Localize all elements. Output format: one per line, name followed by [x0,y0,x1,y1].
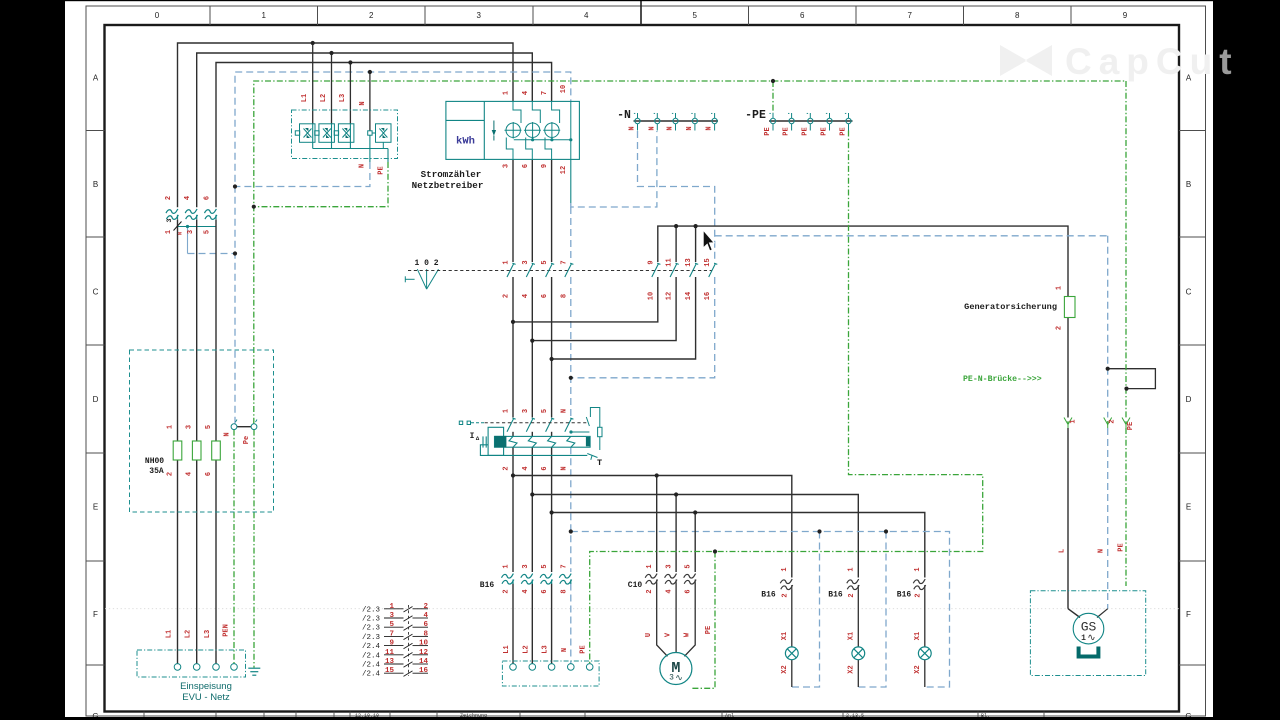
svg-text:9: 9 [647,260,655,264]
svg-text:3: 3 [522,564,530,568]
svg-text:1: 1 [389,603,394,611]
svg-text:5: 5 [692,11,697,20]
svg-text:N: N [224,432,232,436]
svg-text:8: 8 [1015,11,1020,20]
svg-text:4: 4 [184,196,192,200]
svg-text:10: 10 [560,85,568,93]
svg-text:7: 7 [560,564,568,568]
RCD trip coil [480,427,587,455]
svg-text:X1: X1 [781,632,789,640]
svg-text:Netzbetreiber: Netzbetreiber [412,180,484,191]
CapCut watermark [1000,41,1239,82]
svg-text:3: 3 [522,409,530,413]
kWh meter CT coil L3 [543,101,560,159]
svg-text:Generatorsicherung: Generatorsicherung [964,302,1057,312]
svg-text:X2: X2 [914,665,922,673]
wire crossover contact 10 to L1 [513,277,658,322]
wire surge N return [235,135,370,186]
svg-text:-PE: -PE [745,109,766,122]
svg-text:16: 16 [419,667,429,675]
svg-text:12: 12 [666,292,674,300]
svg-text:C: C [1186,288,1192,297]
svg-text:14: 14 [419,658,429,666]
changeover contacts 9-16 [652,263,718,277]
svg-text:2: 2 [848,593,856,597]
surge arrester N-PE module 4 [368,124,391,149]
svg-text:L2: L2 [320,94,328,102]
NH00 fuse L1 [173,441,182,460]
generator fuse Generatorsicherung [1064,297,1075,318]
svg-text:1: 1 [503,564,511,568]
svg-text:kWh: kWh [456,136,475,148]
svg-text:2: 2 [423,603,428,611]
wire generator L bus [658,226,1068,296]
RCD mechanical linkage [485,422,587,424]
svg-text:C: C [93,288,99,297]
black bottom bar [0,717,1280,720]
svg-text:5: 5 [541,564,549,568]
svg-text:3: 3 [666,564,674,568]
svg-text:1: 1 [261,11,266,20]
svg-text:11: 11 [385,649,395,657]
svg-text:L2: L2 [522,645,530,653]
wire L2 top bus [197,53,533,207]
svg-text:B16: B16 [480,581,495,590]
svg-text:L3: L3 [339,94,347,102]
wire generator N [1107,236,1109,609]
wire L3 distribution rail [552,513,925,578]
title block tiny text [355,713,990,719]
wire L1 distribution rail [513,476,792,578]
kWh meter N path and voltage sense line [514,101,571,159]
svg-text:L3: L3 [204,630,212,638]
terminal strip X0 Einspeisung [174,664,237,671]
svg-text:F: F [1186,610,1191,619]
svg-text:10: 10 [419,640,429,648]
B16 lamp breaker 3 [913,579,925,589]
svg-text:N: N [686,126,694,130]
wire kWh meter outputs to changeover [513,160,552,263]
wire crossover contact 16 to N [571,277,715,378]
N-PE link terminals [231,420,257,430]
xref row 3-4 [362,612,428,624]
svg-text:6: 6 [685,589,693,593]
svg-text:8: 8 [423,630,428,638]
svg-text:B16: B16 [897,591,912,600]
svg-text:PE-N-Brücke-->>>: PE-N-Brücke-->>> [963,374,1042,384]
svg-text:1: 1 [1070,419,1078,423]
svg-text:9: 9 [541,164,549,168]
svg-text:4: 4 [522,466,530,470]
svg-text:X1: X1 [914,632,922,640]
enclosure box surge arrester [292,110,398,159]
svg-text:6: 6 [800,11,805,20]
svg-text:4: 4 [584,11,589,20]
B16 lamp breaker 2 [847,579,859,589]
wire PE rail riser [772,81,774,113]
svg-text:N: N [560,409,568,413]
mouse cursor [703,230,714,251]
red wire labels (rotated) [165,85,1135,674]
generator GS [1073,613,1104,644]
svg-text:PE: PE [764,127,772,135]
svg-text:1: 1 [1081,634,1086,643]
svg-text:2: 2 [503,466,511,470]
svg-text:1: 1 [503,409,511,413]
svg-text:Einspeisung: Einspeisung [180,681,232,692]
svg-text:PE: PE [580,645,588,653]
wire surge drop L2 [331,53,333,124]
svg-text:4: 4 [522,294,530,298]
wire generator PE [1125,81,1127,586]
svg-text:N: N [706,126,714,130]
black top edge line [0,0,1280,1]
enclosure box terminal strip X1 [502,661,599,686]
svg-text:N: N [1098,549,1106,553]
Einspeisung EVU-Netz label [180,681,232,703]
svg-text:4: 4 [522,589,530,593]
surge arrester F1 module 2 [315,124,335,149]
changeover switch Q1 actuator 1-0-2 [405,269,438,289]
svg-text:3: 3 [476,11,481,20]
xref row 9-10 [362,640,428,652]
wire surge PE return [254,149,388,207]
wire changeover left poles down to RCD [513,277,552,417]
svg-text:L: L [1059,549,1067,553]
enclosure box generator [1030,591,1145,676]
wire L2 trunk lower [196,220,198,664]
wire PEN below N-PE link [233,430,235,664]
xref row 11-12 [362,649,428,661]
RCD F2 contacts [507,418,573,432]
svg-text:/2.4: /2.4 [362,643,381,651]
svg-text:9: 9 [1123,11,1128,20]
changeover switch mechanical linkage [408,270,712,272]
svg-text:B: B [93,180,98,189]
svg-text:6: 6 [541,294,549,298]
svg-text:PE: PE [378,166,386,174]
svg-text:9: 9 [389,640,394,648]
svg-text:11: 11 [666,258,674,266]
kWh meter energy-direction arrow [492,121,496,141]
svg-text:7: 7 [560,260,568,264]
svg-text:2: 2 [167,472,175,476]
wire L1 trunk lower [177,220,179,664]
svg-text:X1: X1 [848,632,856,640]
svg-text:10: 10 [647,292,655,300]
wire N down to changeover contact 7 [570,207,572,262]
black device labels [145,109,1057,600]
wire crossover contact 12 to L2 [532,277,676,341]
wire N drop lamp 2 [858,532,886,688]
svg-text:2: 2 [503,294,511,298]
svg-text:2: 2 [503,589,511,593]
wire lamp3 bottom [924,660,926,687]
svg-text:PE: PE [821,127,829,135]
svg-text:8: 8 [560,589,568,593]
svg-text:12: 12 [419,649,429,657]
lamp E1 [785,647,798,660]
svg-text:4: 4 [423,612,428,620]
NH00 fuse L3 [212,441,221,460]
svg-text:5: 5 [389,621,394,629]
xref linkage dashed line [408,605,410,676]
fuse-switch Q0 poles (top left) [166,209,217,219]
B16 lamp breaker 1 [780,579,792,589]
svg-text:L1: L1 [301,94,309,102]
wire lamp2 output [857,590,859,648]
svg-text:/2.4: /2.4 [362,662,381,670]
title block bottom strip [144,712,1044,718]
wire N top bus [235,72,571,424]
wire motor PE [692,552,715,689]
svg-text:E: E [1186,503,1191,512]
row ticks left and right strips [86,131,1206,666]
svg-text:N: N [560,466,568,470]
NH00 fuse L2 [192,441,201,460]
xref row 7-8 [362,630,428,642]
RCD summation current transformer core [495,436,591,448]
wire lamp1 bottom [791,660,793,687]
motor M1 [660,653,692,685]
svg-text:E: E [93,503,98,512]
contact cross-reference table [362,603,428,679]
svg-text:L1: L1 [503,645,511,653]
wire L3 top bus [216,63,552,208]
svg-text:4: 4 [522,91,530,95]
wire surge drop L1 [312,43,314,124]
sheet connector arrow N [1104,418,1112,429]
svg-text:CapCut: CapCut [1065,41,1239,82]
svg-text:6: 6 [541,589,549,593]
svg-text:1: 1 [781,567,789,571]
svg-text:5: 5 [204,230,212,234]
wire crossover contact 14 to L3 [552,277,696,359]
black side bar right [1213,0,1280,720]
svg-text:3: 3 [186,425,194,429]
wire surge drop L3 [349,63,351,124]
svg-text:EVU - Netz: EVU - Netz [182,692,230,703]
svg-text:X2: X2 [781,665,789,673]
svg-text:1: 1 [1056,286,1064,290]
svg-text:GS: GS [1081,620,1097,635]
RCD test terminals [459,421,484,424]
svg-text:2: 2 [781,593,789,597]
wire earth below N-PE link [253,430,255,668]
svg-text:3: 3 [503,164,511,168]
sheet connector arrow PE [1122,418,1130,429]
svg-text:2: 2 [1056,326,1064,330]
C10 3-pole breaker [645,574,696,584]
svg-text:5: 5 [205,425,213,429]
svg-text:/2.3: /2.3 [362,634,381,642]
3-pole slash marker [174,222,182,231]
wire L3 trunk lower [215,220,217,664]
svg-text:∿: ∿ [675,674,683,684]
wire N-PE link [237,426,251,428]
svg-text:N: N [648,126,656,130]
svg-text:16: 16 [704,292,712,300]
wire lamp2 bottom [857,660,859,687]
svg-text:3: 3 [669,674,674,683]
black side bar left [0,0,65,720]
svg-text:4: 4 [666,589,674,593]
lamp E3 [918,647,931,660]
svg-text:3: 3 [389,612,394,620]
svg-text:3: 3 [522,260,530,264]
wire L1 top bus [178,43,514,207]
kWh meter CT coil L1 [505,101,522,159]
svg-text:/2.3: /2.3 [362,616,381,624]
svg-text:15: 15 [385,667,395,675]
wire B16 outputs to terminal strip [513,584,552,664]
svg-text:6: 6 [204,196,212,200]
terminal strip X1 bottom distribution [510,664,593,671]
wire C10 feeds [657,476,696,573]
svg-text:N: N [561,648,569,652]
svg-text:B: B [1186,180,1191,189]
svg-text:Stromzähler: Stromzähler [421,169,482,180]
F row dotted guide line [105,608,1179,610]
svg-text:1: 1 [167,425,175,429]
surge arrester bottom link [313,148,388,150]
surge arrester F1 module 1 [295,124,315,149]
svg-text:4: 4 [186,472,194,476]
svg-text:PE: PE [801,127,809,135]
svg-text:2: 2 [914,593,922,597]
kWh meter box [446,101,580,159]
svg-text:12: 12 [560,166,568,174]
svg-text:1: 1 [848,567,856,571]
xref row 5-6 [362,621,428,633]
svg-text:0: 0 [155,11,160,20]
svg-text:1: 1 [646,564,654,568]
svg-text:N: N [629,126,637,130]
wire N distribution rail [571,532,950,688]
svg-text:D: D [93,395,99,404]
wire PE top bus [254,81,1126,424]
svg-text:/2.3: /2.3 [362,606,381,614]
svg-text:6: 6 [423,621,428,629]
svg-text:T: T [597,458,602,468]
wire voltage tap below main fuse-switch [178,225,236,254]
svg-text:14: 14 [685,292,693,300]
xref row 13-14 [362,658,428,670]
svg-text:PE: PE [1127,422,1135,430]
wire C10 outputs to motor [657,584,696,657]
sheet connector arrow L [1064,418,1072,429]
wire PE to terminal strip [590,131,983,664]
wire -N rail T1 to changeover contact 15 [638,131,715,262]
svg-text:PE: PE [1118,543,1126,551]
surge arrester F1 module 3 [334,124,354,149]
svg-text:13: 13 [685,258,693,266]
svg-text:PEN: PEN [223,624,231,637]
svg-text:8: 8 [560,294,568,298]
svg-text:Pe: Pe [243,436,251,444]
svg-text:PE: PE [840,127,848,135]
svg-text:5: 5 [685,564,693,568]
svg-text:I: I [470,432,475,441]
svg-text:PE: PE [783,127,791,135]
svg-text:6: 6 [522,164,530,168]
svg-text:F: F [93,610,98,619]
svg-text:B16: B16 [828,591,843,600]
svg-text:B16: B16 [761,591,776,600]
svg-text:N: N [667,126,675,130]
wire N drop lamp 1 [792,532,820,688]
wire drop to contact 11 [675,226,677,262]
svg-text:15: 15 [704,258,712,266]
svg-text:13: 13 [385,658,395,666]
svg-text:6: 6 [541,466,549,470]
svg-text:L1: L1 [166,630,174,638]
xref row 1-2 [362,603,428,615]
wire RCD output N [570,447,572,572]
svg-text:6: 6 [205,472,213,476]
svg-text:2: 2 [1109,419,1117,423]
svg-text:1: 1 [165,230,173,234]
enclosure box NH00 [130,350,274,512]
svg-text:/2.4: /2.4 [362,671,381,679]
column numbers 0-9 [155,11,1128,20]
svg-text:L3: L3 [542,645,550,653]
svg-text:D: D [1186,395,1192,404]
svg-text:N: N [359,164,367,168]
wire drop to contact 13 [695,226,697,262]
column ticks top strip [210,6,533,25]
svg-text:∿: ∿ [1087,634,1095,645]
wire lamp3 output [924,590,926,648]
row letters A-G [92,74,1191,720]
svg-text:5: 5 [541,409,549,413]
wire L2 distribution rail [532,495,858,578]
svg-text:1: 1 [914,567,922,571]
svg-text:5: 5 [541,260,549,264]
wire generator N angle [1097,609,1108,618]
ground symbol [248,668,260,675]
svg-text:7: 7 [907,11,912,20]
svg-text:1 0 2: 1 0 2 [414,259,438,268]
svg-text:7: 7 [541,91,549,95]
lamp E2 [852,647,865,660]
svg-text:A: A [93,74,99,83]
svg-text:/2.3: /2.3 [362,625,381,633]
wire surge drop N [369,72,371,131]
svg-text:PE: PE [705,626,713,634]
svg-text:N: N [359,101,367,105]
svg-text:N: N [177,232,184,235]
wire RCD outputs L1-L3 [513,432,552,572]
changeover contacts 1-8 [507,263,573,277]
-PE busbar [769,113,853,131]
wire N output to terminal strip [570,584,572,664]
svg-text:L2: L2 [185,630,193,638]
RCD test button circuit [571,408,602,460]
svg-text:-N: -N [617,109,631,122]
wire N pole down to RCD [570,277,572,417]
svg-text:C10: C10 [628,581,643,590]
enclosure box Einspeisung [137,650,246,677]
svg-text:3: 3 [166,218,173,222]
svg-text:1: 1 [503,260,511,264]
svg-text:3: 3 [187,230,195,234]
xref row 15-16 [362,667,428,679]
svg-text:35A: 35A [149,467,164,476]
svg-text:NH00: NH00 [145,457,164,466]
wire lamp1 output [791,590,793,648]
svg-text:7: 7 [389,630,394,638]
